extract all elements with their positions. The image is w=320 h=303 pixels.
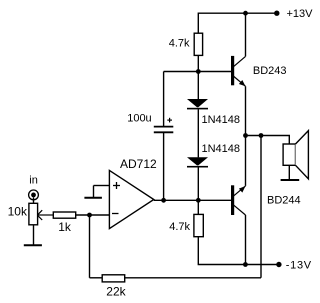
diode D2 1N4148 — [187, 157, 208, 167]
wire BD243 collector — [245, 13, 247, 56]
svg-text:1k: 1k — [58, 220, 72, 234]
wire speaker to ground — [288, 165, 290, 180]
wire BD243 collector diagonal — [233, 56, 245, 66]
wire BD244 collector diagonal — [233, 205, 245, 215]
transistor Q1 emitter arrowhead — [239, 80, 246, 86]
resistor R 4.7k bottom — [194, 214, 203, 236]
input terminal — [29, 190, 39, 200]
wire BD243 base — [164, 71, 232, 73]
svg-text:BD244: BD244 — [267, 195, 301, 207]
node feedback tap — [259, 133, 264, 138]
wire feedback left vertical — [89, 215, 91, 278]
wire output node vertical — [245, 86, 247, 186]
wire feedback bottom right — [125, 277, 261, 279]
wire feedback right vertical — [260, 136, 262, 278]
svg-text:in: in — [29, 175, 38, 187]
svg-text:AD712: AD712 — [120, 157, 157, 171]
svg-text:-13V: -13V — [286, 259, 312, 271]
transistor Q2 BD244 base bar — [231, 185, 234, 215]
svg-text:1N4148: 1N4148 — [202, 114, 241, 126]
ground at op-amp + input — [84, 197, 102, 199]
capacitor C 100u — [154, 127, 174, 133]
wire R1 bottom to base node — [197, 55, 199, 71]
svg-text:10k: 10k — [8, 205, 28, 219]
speaker — [283, 131, 308, 179]
transistor Q1 BD243 base bar — [231, 56, 234, 85]
svg-text:100u: 100u — [127, 113, 151, 125]
transistor Q2 emitter arrowhead — [239, 186, 246, 193]
wire BD244 collector — [245, 215, 247, 265]
resistor 22k — [102, 275, 125, 282]
wire output to speaker — [246, 136, 290, 145]
node BD243 base — [196, 69, 201, 74]
diode D1 1N4148 — [187, 99, 208, 109]
svg-text:22k: 22k — [106, 285, 126, 299]
ground below speaker — [281, 179, 300, 181]
resistor R 4.7k top — [194, 33, 202, 55]
wire cap top branch — [163, 72, 165, 127]
ground below 10k pot — [24, 244, 42, 246]
potentiometer 10k body — [29, 203, 38, 225]
svg-text:BD243: BD243 — [253, 65, 287, 77]
wire op-amp output — [154, 199, 232, 201]
op-amp U1 AD712 triangle — [109, 170, 153, 228]
svg-text:+13V: +13V — [287, 8, 314, 20]
wire BD243 emitter diagonal — [233, 76, 245, 86]
svg-text:4.7k: 4.7k — [169, 221, 190, 233]
wire feedback bottom left — [90, 277, 103, 279]
svg-text:1N4148: 1N4148 — [202, 143, 241, 155]
wire +13V rail — [198, 13, 276, 33]
capacitor polarity plus — [167, 118, 172, 123]
wire diode2 to R2 — [197, 168, 199, 215]
wire noninverting input — [94, 185, 110, 187]
node output to speaker — [243, 133, 248, 138]
node diode chain output — [196, 198, 201, 203]
wire diode chain upper — [197, 72, 199, 100]
wire input terminal to pot — [33, 197, 35, 203]
resistor 1k — [53, 212, 75, 218]
potentiometer wiper arrow — [38, 210, 54, 220]
node inverting input — [87, 213, 92, 218]
op-amp minus input marking — [112, 213, 119, 215]
wire cap bottom to output node — [163, 133, 165, 201]
node -13V junction — [243, 262, 248, 267]
wire BD244 emitter diagonal — [233, 186, 245, 196]
wire 1k to inverting input — [76, 214, 110, 216]
svg-text:4.7k: 4.7k — [169, 37, 190, 49]
terminal +13V — [274, 11, 279, 16]
wire pot bottom to ground — [33, 225, 35, 245]
wire between diodes — [197, 109, 199, 157]
node cap bottom — [161, 198, 166, 203]
terminal -13V — [276, 262, 281, 267]
wire R2 bottom to -13V rail — [198, 237, 279, 265]
wire + input ground drop — [93, 186, 95, 198]
node junction at +13V — [243, 11, 248, 16]
op-amp plus input marking — [113, 182, 120, 189]
